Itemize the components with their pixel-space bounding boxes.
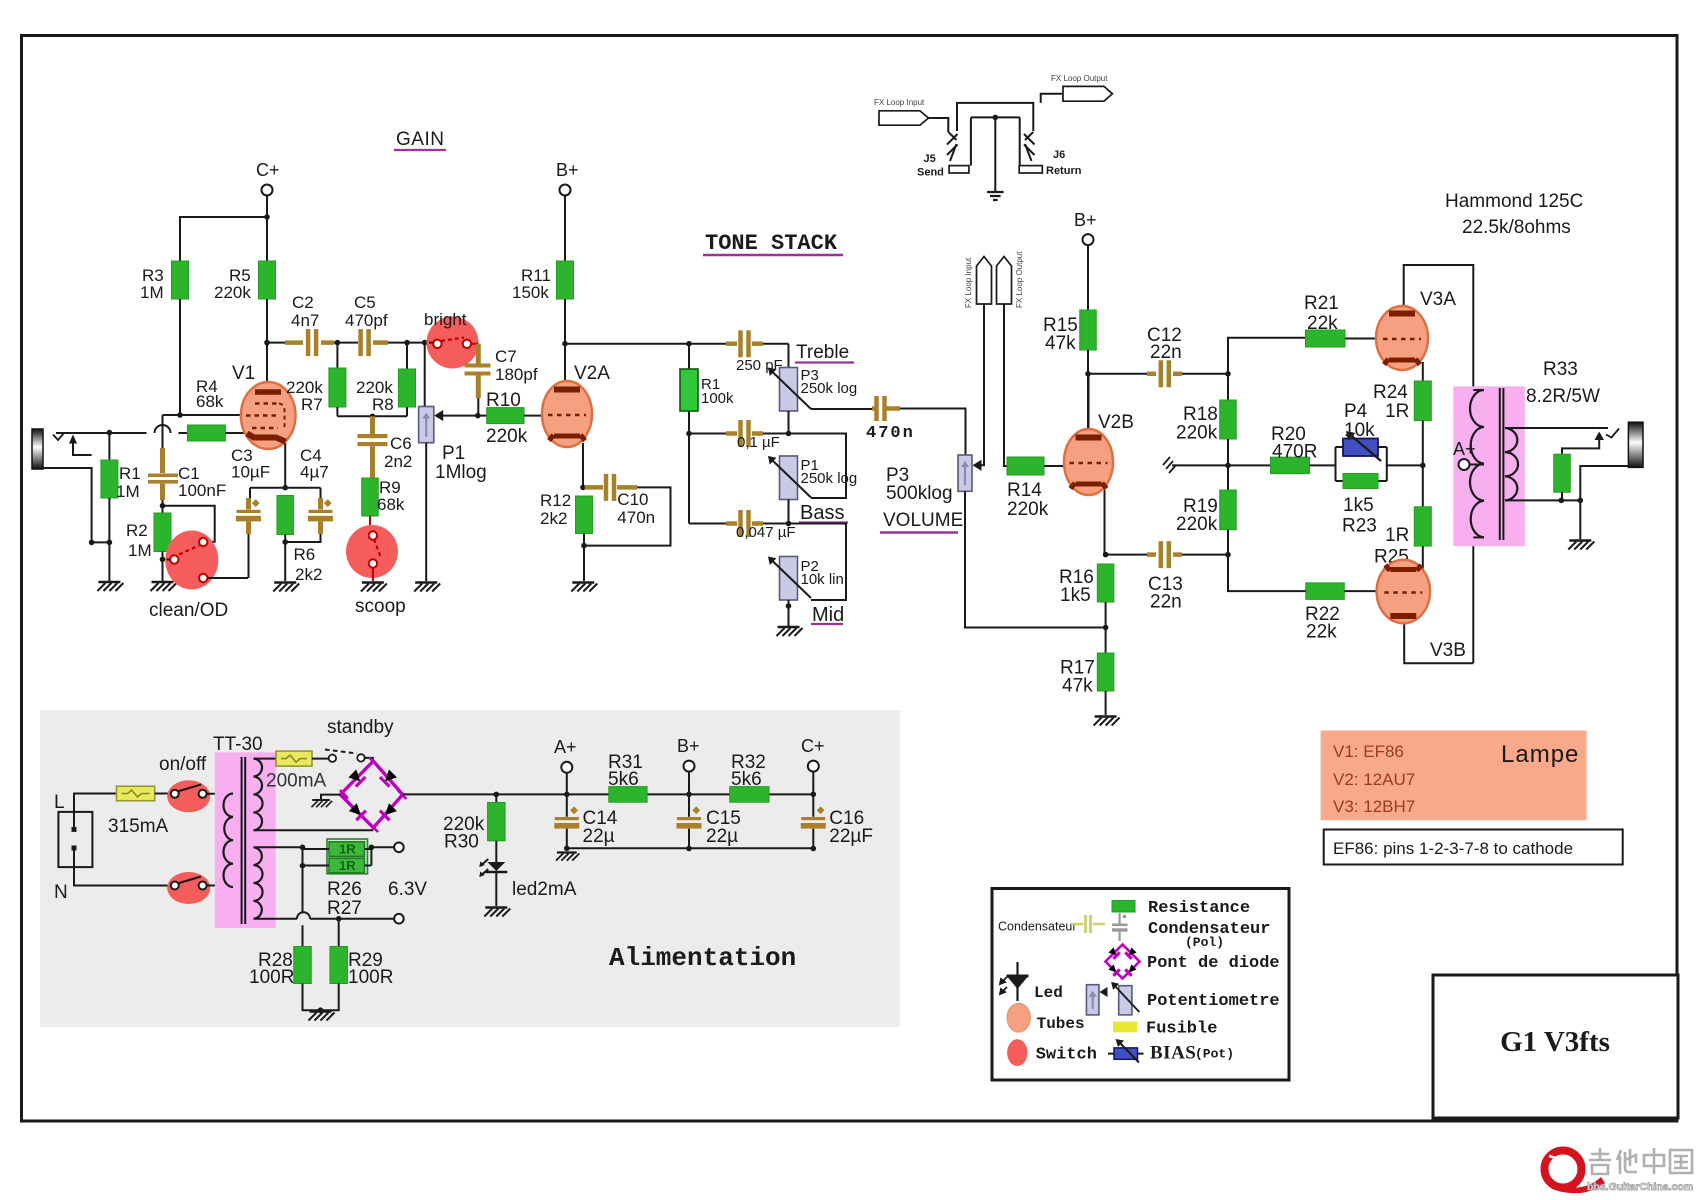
TT30 primary winding <box>223 794 233 888</box>
svg-text:1M: 1M <box>116 482 140 501</box>
legend bias pot <box>1108 1053 1144 1055</box>
svg-text:FX Loop Input: FX Loop Input <box>874 98 925 107</box>
bias network P4 R23 <box>1336 447 1387 481</box>
hatch stub <box>1172 464 1228 466</box>
resistor R18 220k <box>1227 374 1229 400</box>
svg-text:P1: P1 <box>442 443 465 464</box>
svg-text:(Pot): (Pot) <box>1195 1047 1234 1062</box>
power supply background <box>40 710 900 1027</box>
svg-text:V3B: V3B <box>1430 640 1466 661</box>
svg-text:Send: Send <box>917 167 944 179</box>
capacitor C16 22uF <box>801 817 825 820</box>
svg-text:V3A: V3A <box>1420 289 1456 310</box>
svg-text:Treble: Treble <box>796 342 849 363</box>
svg-text:scoop: scoop <box>355 596 406 617</box>
potentiometer P1 250k log bass <box>780 456 798 500</box>
svg-text:22n: 22n <box>1150 342 1182 363</box>
wire heater B with hop <box>295 918 297 920</box>
terminal B+ right <box>1083 234 1094 245</box>
svg-text:220k: 220k <box>1176 423 1218 444</box>
svg-text:Tubes: Tubes <box>1037 1015 1085 1033</box>
ground bus <box>567 847 814 849</box>
legend resistance <box>1112 901 1135 913</box>
resistor R1 1M <box>108 433 110 460</box>
resistor R24 1R <box>1414 381 1431 421</box>
resistor R19 220k <box>1220 490 1237 530</box>
svg-text:led2mA: led2mA <box>512 879 577 900</box>
wire plate row <box>267 342 285 344</box>
heater wires <box>303 847 330 865</box>
wire C1 node to switch <box>163 506 215 542</box>
capacitor C7 180pf <box>476 344 481 364</box>
svg-text:4µ7: 4µ7 <box>300 463 329 482</box>
svg-text:Lampe: Lampe <box>1501 741 1579 768</box>
svg-text:6.3V: 6.3V <box>388 879 427 900</box>
capacitor 250pF treble <box>689 343 726 345</box>
svg-text:315mA: 315mA <box>108 816 169 837</box>
svg-text:BIAS: BIAS <box>1150 1043 1196 1064</box>
svg-text:Condensateur: Condensateur <box>998 920 1077 934</box>
resistor R30 220k <box>494 792 500 798</box>
ground R17 <box>1094 717 1120 726</box>
svg-text:R7: R7 <box>301 395 323 414</box>
svg-text:22µ: 22µ <box>706 826 738 847</box>
switch clean/OD <box>165 531 218 590</box>
svg-text:B+: B+ <box>1074 210 1097 230</box>
svg-text:Led: Led <box>1034 984 1063 1002</box>
svg-text:TT-30: TT-30 <box>213 734 263 755</box>
potentiometer P2 10k lin mid <box>780 557 798 601</box>
capacitor C13 22n <box>1106 554 1147 556</box>
svg-text:0,1 µF: 0,1 µF <box>737 434 780 451</box>
resistor R4 68k <box>187 425 225 441</box>
svg-text:470n: 470n <box>617 508 655 527</box>
ground scoop <box>361 583 387 592</box>
resistor R14 220k <box>1007 457 1044 475</box>
terminal C+ <box>808 761 819 772</box>
legend tubes <box>1007 1004 1030 1032</box>
svg-text:Mid: Mid <box>812 604 844 626</box>
svg-text:22k: 22k <box>1306 622 1337 643</box>
svg-text:1R: 1R <box>1385 401 1409 422</box>
svg-text:68k: 68k <box>377 495 405 514</box>
resistor R31 5k6 <box>609 787 647 803</box>
svg-text:Bass: Bass <box>800 502 844 524</box>
jack tip arrow <box>69 435 77 444</box>
svg-text:200mA: 200mA <box>266 771 327 792</box>
svg-text:2n2: 2n2 <box>384 452 412 471</box>
capacitor C2 4n7 <box>285 340 303 345</box>
svg-text:Alimentation: Alimentation <box>609 943 796 973</box>
tube V2B <box>1089 374 1105 555</box>
output transformer Hammond <box>1453 386 1525 546</box>
TT30 core <box>242 757 246 924</box>
secondary bottom net <box>1505 466 1628 500</box>
svg-text:500klog: 500klog <box>886 483 953 504</box>
legend switch <box>1007 1039 1027 1066</box>
capacitor C10 470n <box>585 485 603 490</box>
capacitor C4 4u7 <box>320 488 322 498</box>
resistor R5 220k <box>259 261 276 299</box>
EF86 note box <box>1324 830 1623 865</box>
wire N <box>74 851 171 886</box>
svg-text:J6: J6 <box>1053 149 1065 161</box>
switch on/off <box>167 780 210 812</box>
svg-text:GAIN: GAIN <box>396 129 444 150</box>
svg-text:4n7: 4n7 <box>291 311 319 330</box>
svg-text:Hammond 125C: Hammond 125C <box>1445 191 1583 212</box>
svg-text:TONE STACK: TONE STACK <box>705 231 838 256</box>
primary winding <box>1473 389 1484 391</box>
resistor R1 100k tone <box>688 344 690 369</box>
svg-text:220k: 220k <box>214 283 251 302</box>
svg-text:220k: 220k <box>486 426 528 447</box>
FX return arrow flag <box>997 257 1012 305</box>
svg-text:250k log: 250k log <box>801 380 858 397</box>
capacitor 0,047uF <box>726 521 737 526</box>
wire bridge output rail <box>403 793 814 795</box>
svg-text:R12: R12 <box>540 491 571 510</box>
svg-text:8.2R/5W: 8.2R/5W <box>1526 386 1600 407</box>
legend potentiometre <box>1086 985 1099 1015</box>
svg-text:1R: 1R <box>339 842 356 857</box>
switch N <box>167 872 210 904</box>
resistor R16 1k5 <box>1097 564 1114 602</box>
svg-text:V3: 12BH7: V3: 12BH7 <box>1333 797 1415 816</box>
svg-text:100R: 100R <box>249 967 294 988</box>
svg-text:V2: 12AU7: V2: 12AU7 <box>1333 770 1415 789</box>
lampe box <box>1321 731 1587 821</box>
svg-text:R21: R21 <box>1304 293 1339 314</box>
svg-text:100R: 100R <box>348 967 393 988</box>
resistor R23 1k5 <box>1343 474 1378 489</box>
resistor R9 68k <box>362 478 379 516</box>
svg-text:Switch: Switch <box>1036 1046 1097 1065</box>
terminal A+ output <box>1459 459 1470 470</box>
wire mid pot loop <box>789 524 847 601</box>
ground LED <box>484 908 510 917</box>
potentiometer P3 500klog volume <box>958 455 972 491</box>
switch scoop <box>346 525 398 578</box>
svg-text:0,047 µF: 0,047 µF <box>736 524 796 541</box>
svg-text:R23: R23 <box>1342 516 1377 537</box>
FX send arrow flag <box>977 257 992 305</box>
resistor R29 100R <box>338 919 340 947</box>
ground C14 <box>556 853 579 861</box>
resistor R32 5k6 <box>730 787 769 803</box>
svg-text:V1: V1 <box>232 363 255 384</box>
svg-text:R2: R2 <box>126 521 148 540</box>
terminal C+ <box>262 185 273 196</box>
svg-text:N: N <box>54 882 68 903</box>
svg-text:R30: R30 <box>444 832 479 853</box>
svg-text:J5: J5 <box>924 153 936 165</box>
bridge rectifier <box>340 761 402 828</box>
svg-text:C+: C+ <box>801 736 825 756</box>
capacitor C6 2n2 <box>370 416 375 434</box>
svg-text:EF86: pins 1-2-3-7-8 to cathod: EF86: pins 1-2-3-7-8 to cathode <box>1333 839 1573 858</box>
tube V3A <box>1404 265 1474 390</box>
ground R28 R29 <box>303 984 339 1011</box>
svg-text:B+: B+ <box>677 736 700 756</box>
svg-text:Return: Return <box>1046 165 1082 177</box>
legend box <box>992 889 1289 1081</box>
secondary winding <box>1505 428 1518 500</box>
wire R5 to V1 plate <box>266 299 268 388</box>
resistor R3 1M <box>172 261 189 299</box>
svg-text:Resistance: Resistance <box>1148 899 1250 918</box>
svg-text:47k: 47k <box>1062 676 1093 697</box>
svg-text:C6: C6 <box>390 434 412 453</box>
transformer core <box>1500 388 1504 540</box>
TT30 heater secondary <box>254 847 263 918</box>
resistor R15 47k <box>1080 310 1097 350</box>
terminal heater B <box>394 914 404 924</box>
title box G1 V3fts <box>1433 975 1678 1118</box>
watermark text <box>1589 1148 1611 1174</box>
svg-text:22.5k/8ohms: 22.5k/8ohms <box>1462 217 1571 238</box>
wire R3 to grid node <box>179 299 181 415</box>
fuse 315mA <box>117 786 155 801</box>
wire volume wiper to FX send <box>981 304 984 465</box>
svg-text:A+: A+ <box>554 737 577 757</box>
TT30 HV secondary <box>254 759 263 831</box>
terminal B+ <box>684 761 695 772</box>
wire FX return to R14 <box>1004 304 1007 466</box>
svg-text:470n: 470n <box>866 424 915 443</box>
svg-text:470R: 470R <box>1272 442 1317 463</box>
svg-text:on/off: on/off <box>159 754 207 775</box>
wire FX ground net <box>971 117 1020 192</box>
svg-text:150k: 150k <box>512 283 549 302</box>
svg-text:2k2: 2k2 <box>540 509 567 528</box>
resistor R20 470R <box>1228 464 1271 466</box>
svg-text:100k: 100k <box>701 390 734 407</box>
svg-text:1M: 1M <box>140 283 164 302</box>
svg-text:1k5: 1k5 <box>1060 585 1091 606</box>
svg-text:2k2: 2k2 <box>295 565 322 584</box>
svg-text:1k5: 1k5 <box>1343 495 1374 516</box>
svg-text:R14: R14 <box>1007 480 1042 501</box>
svg-text:R1: R1 <box>119 464 141 483</box>
ground R12 <box>571 583 597 592</box>
resistor R25 1R <box>1414 507 1431 546</box>
svg-text:R6: R6 <box>294 545 316 564</box>
svg-text:C7: C7 <box>495 347 517 366</box>
svg-text:A+: A+ <box>1453 439 1476 459</box>
potentiometer P1 1Mlog <box>424 343 426 407</box>
cathode node V2A <box>580 485 586 491</box>
resistor R6 2k2 <box>277 496 294 535</box>
resistor R12 2k2 <box>576 496 593 534</box>
svg-text:C+: C+ <box>256 160 280 180</box>
earth ground FX <box>987 192 1004 200</box>
svg-text:10µF: 10µF <box>231 463 270 482</box>
wire L <box>74 794 117 827</box>
wire J5 tip bridge <box>957 103 1033 131</box>
switch bright <box>427 317 479 369</box>
svg-text:22k: 22k <box>1307 313 1338 334</box>
ground speaker <box>1568 541 1594 550</box>
FX loop input flag <box>879 111 929 125</box>
svg-text:22n: 22n <box>1150 592 1182 613</box>
svg-text:250k log: 250k log <box>801 470 858 487</box>
svg-text:P4: P4 <box>1344 401 1368 422</box>
ground mid <box>777 627 803 636</box>
resistor R8 220k <box>406 343 408 369</box>
wire input to V1 grid <box>56 432 147 434</box>
svg-text:V1: EF86: V1: EF86 <box>1333 742 1404 761</box>
grid wire node <box>163 415 248 451</box>
ground R1 <box>97 582 123 591</box>
tube V1 EF86 <box>241 382 296 449</box>
capacitor 0,1uF <box>726 431 737 436</box>
svg-text:180pf: 180pf <box>495 365 538 384</box>
FX loop output flag <box>1063 86 1112 101</box>
resistor R2 1M <box>154 513 171 552</box>
resistor R22 22k <box>1306 583 1345 600</box>
resistors R26 R27 heater <box>327 839 368 874</box>
svg-text:V2B: V2B <box>1098 412 1134 433</box>
svg-text:FX Loop Output: FX Loop Output <box>1015 251 1024 308</box>
svg-text:G1 V3fts: G1 V3fts <box>1500 1026 1610 1058</box>
ground P1 <box>414 583 440 592</box>
speaker jack arrow <box>1595 432 1605 441</box>
svg-text:V2A: V2A <box>574 363 610 384</box>
svg-text:100nF: 100nF <box>178 481 226 500</box>
svg-text:standby: standby <box>327 717 394 738</box>
terminal A+ <box>561 762 572 773</box>
svg-text:L: L <box>54 792 65 813</box>
ground bridge <box>321 795 340 799</box>
svg-text:68k: 68k <box>196 392 224 411</box>
svg-text:1R: 1R <box>339 858 356 873</box>
capacitor C5 470pf <box>361 329 369 356</box>
resistor R17 47k <box>1097 653 1114 691</box>
svg-text:R10: R10 <box>486 390 521 411</box>
svg-text:R8: R8 <box>372 395 394 414</box>
tube V3B <box>1404 542 1473 663</box>
svg-text:R24: R24 <box>1373 382 1408 403</box>
svg-text:Fusible: Fusible <box>1146 1020 1217 1039</box>
wire R7 R8 bottom bus <box>337 415 407 417</box>
ground R2 <box>151 582 177 591</box>
wire C+ to R5 and R3 <box>180 196 267 262</box>
svg-text:250 pF: 250 pF <box>736 357 783 374</box>
svg-text:47k: 47k <box>1045 333 1076 354</box>
svg-text:22µF: 22µF <box>829 826 873 847</box>
svg-text:220k: 220k <box>1007 499 1049 520</box>
resistor R21 22k <box>1306 330 1346 347</box>
terminal B+ left <box>560 185 571 196</box>
svg-text:1Mlog: 1Mlog <box>435 462 487 483</box>
svg-text:B+: B+ <box>556 160 579 180</box>
svg-text:bbs.GuitarChina.com: bbs.GuitarChina.com <box>1587 1181 1693 1193</box>
svg-text:FX Loop Output: FX Loop Output <box>1051 74 1108 83</box>
wire treble wiper to 470n <box>811 408 872 410</box>
svg-text:VOLUME: VOLUME <box>883 510 963 531</box>
ground R6 <box>273 583 299 592</box>
jack J5 Send <box>948 132 956 140</box>
svg-text:5k6: 5k6 <box>731 769 762 790</box>
svg-text:22µ: 22µ <box>583 826 615 847</box>
svg-text:R27: R27 <box>327 898 362 919</box>
resistor R11 150k <box>557 261 574 299</box>
svg-text:1M: 1M <box>128 541 152 560</box>
tube V2A <box>565 344 583 488</box>
svg-text:220k: 220k <box>1176 514 1218 535</box>
svg-text:FX Loop Input: FX Loop Input <box>964 257 973 308</box>
svg-text:Potentiometre: Potentiometre <box>1147 992 1280 1011</box>
wire FX input to J5 <box>929 118 949 132</box>
legend condensateur pol <box>1118 913 1120 941</box>
svg-text:Pont de diode: Pont de diode <box>1147 954 1280 973</box>
watermark logo <box>1545 1151 1606 1194</box>
legend fusible <box>1113 1022 1137 1033</box>
legend led <box>1016 962 1018 1001</box>
svg-text:10k: 10k <box>1344 420 1375 441</box>
resistor R33 8.2R/5W <box>1562 440 1599 454</box>
resistor R10 220k <box>487 408 524 424</box>
svg-text:clean/OD: clean/OD <box>149 600 228 621</box>
svg-text:1R: 1R <box>1385 525 1409 546</box>
wire B+ node to tone stack <box>565 343 689 345</box>
fuse 200mA <box>276 751 312 766</box>
legend pont de diode <box>1106 945 1140 979</box>
capacitor C3 10uF <box>249 488 251 498</box>
terminal heater A <box>394 843 404 853</box>
capacitor C12 22n <box>1088 373 1147 375</box>
LED led2mA <box>495 841 497 862</box>
svg-text:C5: C5 <box>354 293 376 312</box>
jack J6 Return <box>1025 132 1033 140</box>
svg-text:bright: bright <box>424 310 467 329</box>
node tone stack top <box>686 341 692 347</box>
svg-text:470pf: 470pf <box>345 311 388 330</box>
transformer TT-30 <box>215 752 276 928</box>
svg-text:10k lin: 10k lin <box>801 571 844 588</box>
svg-text:C10: C10 <box>617 490 648 509</box>
capacitor 470n coupling <box>877 396 885 421</box>
node C12 right <box>1225 371 1231 377</box>
svg-text:(Pol): (Pol) <box>1185 935 1224 950</box>
wire V1 cathode node <box>250 443 321 488</box>
wire bass pot loop <box>789 434 847 499</box>
mains plug <box>58 812 92 867</box>
capacitor C14 22u <box>555 817 579 820</box>
capacitor C15 22u <box>677 817 701 820</box>
resistor R28 100R <box>302 866 304 947</box>
potentiometer P3 250k log treble <box>788 344 790 368</box>
svg-text:R26: R26 <box>327 879 362 900</box>
resistor R7 220k <box>336 343 338 368</box>
svg-text:5k6: 5k6 <box>608 769 639 790</box>
capacitor C1 100nF <box>160 448 165 473</box>
svg-text:C2: C2 <box>292 293 314 312</box>
svg-text:R33: R33 <box>1543 359 1578 380</box>
wire jack sleeve <box>43 468 109 542</box>
